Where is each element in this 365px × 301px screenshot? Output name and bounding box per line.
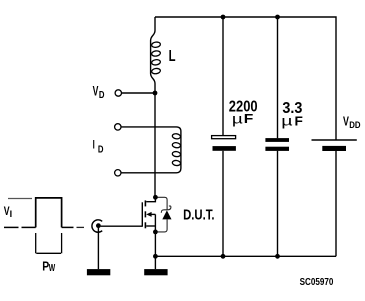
svg-text:V: V	[93, 83, 99, 99]
svg-text:F: F	[295, 114, 303, 128]
svg-text:DD: DD	[349, 119, 360, 130]
svg-text:D: D	[98, 144, 104, 155]
svg-text:µ: µ	[232, 111, 243, 127]
svg-text:SC05970: SC05970	[300, 276, 334, 287]
svg-text:D: D	[99, 89, 105, 100]
svg-text:I: I	[93, 139, 95, 152]
svg-text:L: L	[169, 46, 176, 64]
svg-text:I: I	[10, 209, 13, 219]
svg-text:D.U.T.: D.U.T.	[183, 206, 214, 223]
svg-text:F: F	[244, 112, 254, 126]
svg-text:W: W	[49, 262, 56, 274]
svg-text:µ: µ	[281, 113, 293, 129]
